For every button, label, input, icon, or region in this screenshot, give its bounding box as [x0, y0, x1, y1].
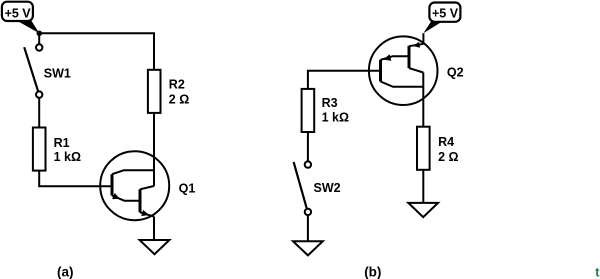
- wire R1 to Q1 base: [39, 171, 112, 187]
- label R3 value: [322, 96, 349, 124]
- wire junction to SW1 top: [38, 33, 40, 44]
- transistor Q1 (NPN darlington): [100, 151, 169, 220]
- ground (a): [140, 240, 170, 254]
- svg-text:+5 V: +5 V: [432, 6, 459, 20]
- wire R2 to Q1 collector: [153, 113, 155, 186]
- svg-text:Q1: Q1: [179, 182, 196, 196]
- svg-text:SW1: SW1: [44, 67, 71, 81]
- svg-text:1 kΩ: 1 kΩ: [54, 150, 81, 164]
- label R2 value: [169, 78, 189, 107]
- resistor R1: [33, 128, 46, 171]
- resistor R2: [148, 70, 161, 113]
- svg-text:R3: R3: [322, 96, 338, 110]
- transistor Q2 (PNP darlington): [369, 36, 438, 105]
- wire Q1 emitter to ground: [153, 217, 155, 240]
- wire SW2 to ground: [307, 215, 309, 241]
- svg-text:(b): (b): [364, 264, 381, 279]
- wire R4 to ground: [422, 170, 424, 203]
- wire R3 to SW2: [307, 132, 309, 161]
- wire Q2 base to R3: [308, 71, 381, 89]
- svg-text:(a): (a): [57, 264, 74, 279]
- label R1 value: [54, 136, 81, 164]
- svg-text:R4: R4: [438, 135, 454, 149]
- wire V2 to Q2 emitter: [422, 33, 424, 44]
- resistor R4: [417, 127, 430, 170]
- svg-text:SW2: SW2: [314, 181, 341, 195]
- svg-text:2 Ω: 2 Ω: [169, 93, 189, 107]
- svg-text:1 kΩ: 1 kΩ: [322, 111, 349, 125]
- node A junction dot: [37, 31, 43, 37]
- ground (b right): [408, 203, 438, 217]
- voltage label V1 +5V callout: [2, 2, 39, 34]
- svg-text:2 Ω: 2 Ω: [438, 150, 458, 164]
- svg-text:t: t: [595, 265, 600, 279]
- wire SW1 to R1: [38, 98, 40, 128]
- resistor R3: [302, 89, 315, 132]
- wire Q2 collector to R4: [422, 73, 424, 127]
- svg-text:+5 V: +5 V: [5, 6, 32, 20]
- switch SW1: [24, 44, 42, 98]
- switch SW2: [294, 161, 311, 215]
- label R4 value: [438, 135, 458, 164]
- wire top rail of (a): [39, 33, 154, 70]
- svg-text:Q2: Q2: [447, 66, 464, 80]
- voltage label V2 +5V callout: [423, 3, 460, 34]
- ground (b left): [293, 241, 323, 255]
- svg-text:R1: R1: [54, 136, 70, 150]
- svg-text:R2: R2: [169, 78, 185, 92]
- wire R2 top rail drop: [153, 33, 155, 70]
